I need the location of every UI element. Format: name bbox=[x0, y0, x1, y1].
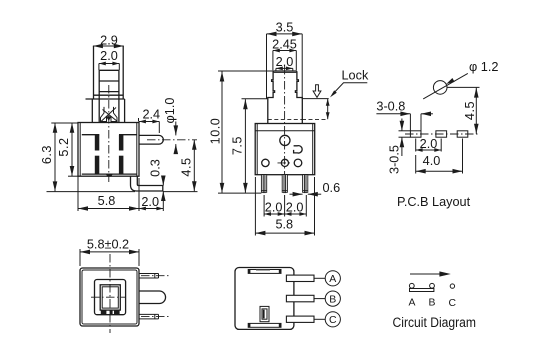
svg-text:4.5: 4.5 bbox=[179, 157, 193, 176]
svg-text:3.5: 3.5 bbox=[276, 21, 294, 35]
svg-text:2.0: 2.0 bbox=[141, 195, 159, 209]
svg-text:3-0.5: 3-0.5 bbox=[387, 145, 401, 174]
svg-text:0.3: 0.3 bbox=[149, 159, 163, 177]
svg-text:2.0: 2.0 bbox=[276, 55, 294, 69]
svg-text:2.9: 2.9 bbox=[100, 34, 118, 48]
svg-text:2.0: 2.0 bbox=[265, 200, 283, 214]
svg-text:10.0: 10.0 bbox=[209, 118, 223, 145]
svg-text:φ1.0: φ1.0 bbox=[163, 98, 177, 124]
svg-text:6.3: 6.3 bbox=[40, 145, 54, 164]
svg-text:A: A bbox=[329, 273, 336, 285]
svg-text:0.6: 0.6 bbox=[323, 181, 341, 195]
svg-text:5.8: 5.8 bbox=[275, 217, 293, 231]
svg-text:2.45: 2.45 bbox=[272, 37, 297, 51]
svg-text:φ 1.2: φ 1.2 bbox=[469, 60, 499, 74]
svg-text:5.8±0.2: 5.8±0.2 bbox=[87, 238, 129, 252]
svg-text:4.0: 4.0 bbox=[423, 154, 441, 168]
svg-text:C: C bbox=[329, 314, 337, 326]
svg-text:2.0: 2.0 bbox=[420, 137, 438, 151]
svg-text:2.4: 2.4 bbox=[142, 108, 160, 122]
svg-text:2.0: 2.0 bbox=[100, 49, 118, 63]
svg-text:C: C bbox=[449, 298, 457, 309]
svg-text:5.2: 5.2 bbox=[57, 137, 71, 156]
svg-text:A: A bbox=[409, 298, 416, 309]
svg-text:Circuit Diagram: Circuit Diagram bbox=[393, 315, 477, 330]
svg-text:3-0.8: 3-0.8 bbox=[376, 100, 405, 114]
svg-text:2.0: 2.0 bbox=[286, 200, 304, 214]
svg-text:4.5: 4.5 bbox=[463, 101, 477, 120]
svg-text:7.5: 7.5 bbox=[230, 136, 244, 155]
svg-text:B: B bbox=[329, 293, 336, 305]
svg-text:5.8: 5.8 bbox=[98, 194, 116, 208]
svg-text:Lock: Lock bbox=[342, 68, 369, 82]
svg-text:P.C.B Layout: P.C.B Layout bbox=[397, 195, 471, 209]
svg-text:B: B bbox=[429, 298, 436, 309]
